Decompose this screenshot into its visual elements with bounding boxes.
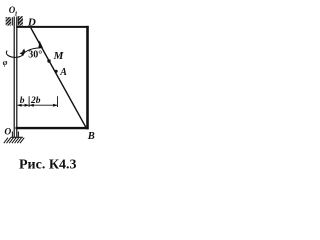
ground hatching bbox=[4, 138, 24, 144]
bottom socket walls bbox=[12, 132, 18, 137]
background bbox=[0, 0, 98, 176]
dimension 2b: line with arrows from tick to tick bbox=[29, 96, 57, 107]
svg-text:2b: 2b bbox=[30, 96, 41, 106]
top bearing left block (hatched) bbox=[6, 17, 13, 25]
svg-text:D: D bbox=[27, 17, 36, 29]
dimension b: line with arrows from shaft to tick bbox=[17, 96, 29, 107]
30 degree arc with left arrowhead bbox=[19, 48, 42, 56]
top bearing right block (hatched) bbox=[18, 16, 23, 25]
rotation arrow phi (ellipse arc around shaft) bbox=[6, 49, 25, 58]
arrowhead on chute (points up toward D) bbox=[38, 41, 43, 49]
svg-text:30°: 30° bbox=[28, 49, 42, 60]
svg-text:φ: φ bbox=[3, 58, 8, 67]
shaft (rotating rod, two vertical lines) bbox=[14, 17, 17, 138]
svg-text:M: M bbox=[53, 50, 65, 62]
frame top bar (from shaft to right) bbox=[16, 26, 88, 28]
label O1 (top bearing) bbox=[9, 5, 18, 18]
svg-text:B: B bbox=[87, 131, 95, 142]
svg-text:1: 1 bbox=[14, 10, 17, 17]
svg-text:Рис. К4.3: Рис. К4.3 bbox=[19, 157, 76, 172]
point A dot bbox=[55, 70, 58, 73]
frame right bar bbox=[86, 26, 89, 129]
ground line bbox=[11, 136, 23, 138]
frame bottom bar bbox=[16, 127, 89, 129]
point M dot bbox=[47, 59, 50, 62]
svg-text:A: A bbox=[59, 67, 67, 78]
diagonal chute D-B bbox=[31, 28, 87, 129]
svg-text:b: b bbox=[20, 96, 25, 106]
svg-text:O: O bbox=[4, 127, 11, 137]
